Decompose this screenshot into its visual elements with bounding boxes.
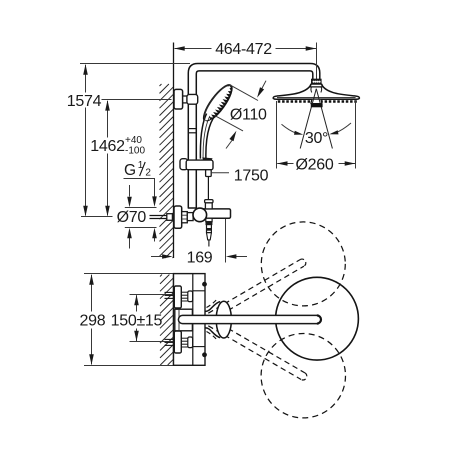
dim 1462 arrow up bbox=[105, 100, 110, 111]
shower outlet block (plan) bbox=[175, 309, 193, 331]
dim Ø260 arrow left bbox=[277, 161, 288, 166]
dim 298 extension top bbox=[84, 273, 205, 275]
shower pipe outline bbox=[188, 64, 319, 209]
dim 1574 line upper segment bbox=[85, 65, 87, 93]
head shower circle (plan) bbox=[276, 277, 359, 360]
head shower nozzle row bbox=[278, 100, 357, 103]
dashed arm lower (swivel) bbox=[208, 326, 301, 380]
thermostat spacer bbox=[187, 213, 193, 221]
dashed circle upper (head swivel position) bbox=[261, 222, 345, 306]
hose end line bbox=[208, 240, 210, 247]
dim Ø260 extension line right bbox=[355, 101, 357, 169]
dashed circle lower (head swivel position) bbox=[261, 334, 345, 418]
dim 464-472 extension line through pipe bbox=[316, 63, 318, 84]
dim 169 line right tail bbox=[230, 256, 248, 258]
dashed arm upper (swivel) bbox=[212, 266, 304, 320]
svg-text:-100: -100 bbox=[125, 145, 145, 156]
svg-text:1750: 1750 bbox=[234, 168, 269, 185]
wall bracket plate bbox=[174, 89, 183, 109]
dim 464-472 line left segment bbox=[175, 48, 212, 50]
hand shower hose nut bbox=[206, 170, 212, 177]
arm bell mouth ellipse bbox=[216, 301, 231, 338]
svg-text:1462: 1462 bbox=[90, 138, 125, 155]
svg-text:G: G bbox=[124, 162, 136, 179]
dim 298 arrow down bbox=[89, 354, 94, 365]
thermostat escutcheon bbox=[174, 206, 182, 228]
head shower spray plate line bbox=[277, 97, 356, 99]
dim 1574 arrow down bbox=[83, 206, 88, 217]
dim Ø70 left arrow line lower bbox=[129, 238, 131, 249]
dim 169 arrow right at wall bbox=[162, 254, 173, 259]
wall hatching (side view) bbox=[160, 84, 174, 258]
dim 150 extension top bbox=[130, 294, 177, 296]
hand shower holder dark wedge bbox=[202, 157, 212, 162]
dim Ø260 arrow right bbox=[345, 161, 356, 166]
angle 30 right arc arrow bbox=[333, 123, 351, 134]
hand shower hose line bbox=[207, 177, 209, 200]
supply stub lines top (plan) bbox=[165, 291, 174, 293]
supply stub lines bottom (plan) bbox=[165, 338, 174, 340]
svg-text:464-472: 464-472 bbox=[215, 41, 272, 58]
thermostat temperature handle bbox=[193, 208, 207, 222]
dim 298 extension bottom bbox=[84, 365, 205, 367]
hand shower spray face hatching bbox=[205, 86, 235, 124]
hose outlet cylinder bbox=[207, 225, 212, 233]
dim 1462 line upper segment bbox=[107, 101, 109, 138]
dim 464-472 line right segment bbox=[276, 48, 317, 50]
dim 298 line upper bbox=[91, 275, 93, 312]
dim Ø70 left arrow up bbox=[127, 228, 132, 239]
thermostat body bbox=[197, 209, 231, 218]
dim Ø70 left arrow line upper bbox=[129, 185, 131, 197]
riser collar at bracket bbox=[187, 94, 198, 104]
spray cone 30 deg left line bbox=[300, 89, 316, 149]
supply escutcheon bottom (plan) bbox=[174, 331, 181, 353]
shower arm tube (plan) bbox=[178, 315, 321, 323]
dim 150 line upper bbox=[136, 295, 138, 311]
dim 1462 arrow down bbox=[105, 206, 110, 217]
dim 169 line left bbox=[151, 256, 169, 258]
angle 30 left arc arrow bbox=[282, 124, 300, 134]
head shower ball sphere arcs bbox=[310, 87, 313, 93]
dim 464-472 arrow left bbox=[174, 46, 185, 51]
arm bell bottom curve bbox=[205, 328, 220, 338]
dim Ø260 line left bbox=[277, 163, 293, 165]
dim 150 arrow up bbox=[134, 295, 139, 306]
dim 464-472 extension line right bbox=[316, 43, 318, 87]
label G 1/2 bbox=[124, 160, 151, 179]
dim Ø110 arrow lower bbox=[226, 139, 233, 149]
G 1/2 underline bbox=[124, 178, 156, 180]
dim 298 arrow up bbox=[89, 274, 94, 285]
supply pipe thread top (plan) bbox=[181, 291, 188, 293]
hose outlet flange bbox=[206, 218, 212, 221]
trim internal line bottom (plan) bbox=[193, 346, 205, 348]
head shower ball joint knurl bbox=[312, 79, 321, 84]
G 1/2 arrow down bbox=[152, 196, 157, 207]
thermostat trim outline (plan) bbox=[174, 274, 206, 366]
supply escutcheon top (plan) bbox=[174, 286, 181, 308]
dashed bell arc upper bbox=[207, 298, 219, 308]
dim Ø260 line right bbox=[339, 163, 356, 165]
supply union nut bottom (plan) bbox=[188, 337, 193, 348]
svg-text:298: 298 bbox=[80, 312, 106, 329]
diverter knob bbox=[205, 202, 212, 209]
svg-text:1574: 1574 bbox=[67, 93, 102, 110]
thermostat union nut bbox=[182, 212, 188, 223]
supply nipple wall fitting bbox=[167, 214, 173, 221]
dim Ø70 extension line bottom bbox=[125, 227, 157, 229]
wall face line (plan view) bbox=[173, 274, 175, 366]
dim 1462 line lower segment bbox=[107, 154, 109, 216]
wall face line (side view) bbox=[173, 43, 175, 259]
dim Ø260 extension line left bbox=[276, 101, 278, 169]
dim bottom tick line (supply centerline) bbox=[81, 216, 113, 218]
spray cone 30 deg right line bbox=[316, 89, 332, 149]
dim 150 extension bottom bbox=[130, 341, 177, 343]
shower arm tube end cap bbox=[317, 315, 321, 323]
head shower center hub bbox=[311, 99, 322, 103]
svg-text:Ø260: Ø260 bbox=[296, 156, 334, 173]
trim internal line top (plan) bbox=[193, 290, 205, 292]
svg-text:2: 2 bbox=[145, 168, 151, 179]
arm bell top curve bbox=[205, 302, 220, 312]
dim Ø110 arrow upper bbox=[260, 81, 267, 93]
head shower outline bbox=[273, 84, 359, 99]
dim 1574 line lower segment bbox=[85, 108, 87, 216]
dim 1574 extension line top bbox=[80, 63, 190, 65]
dim Ø70 right arrow line lower bbox=[154, 238, 156, 242]
head shower ball flare bbox=[310, 84, 322, 87]
dim 1574 arrow up bbox=[83, 64, 88, 75]
dim Ø70 left arrow down bbox=[127, 197, 132, 208]
supply nipple double line bbox=[150, 215, 168, 217]
trim notch top (plan) bbox=[202, 282, 207, 287]
wall hatching (plan view) bbox=[160, 275, 174, 366]
dim Ø70 extension line top bbox=[125, 207, 157, 209]
svg-text:150±15: 150±15 bbox=[111, 312, 163, 329]
dim 1462 extension line (bracket level) bbox=[102, 99, 172, 101]
dim 298 line lower bbox=[91, 329, 93, 365]
hand shower holder knob bbox=[180, 159, 188, 170]
supply pipe thread bottom (plan) bbox=[181, 337, 188, 339]
trim notch bottom (plan) bbox=[202, 352, 207, 357]
wall bracket arm bbox=[182, 96, 190, 103]
hand shower holder bar bbox=[186, 160, 213, 170]
head shower hub dark band bbox=[311, 104, 323, 108]
svg-text:Ø70: Ø70 bbox=[117, 209, 147, 226]
dim 150 arrow down bbox=[134, 331, 139, 342]
supply union nut top (plan) bbox=[188, 291, 193, 302]
dim Ø110 extension line lower bbox=[214, 115, 243, 131]
trim inner vertical line (plan) bbox=[192, 274, 194, 315]
G 1/2 leader line down bbox=[154, 179, 156, 199]
hose outlet cone bbox=[207, 233, 212, 240]
hose outlet nut bbox=[206, 222, 212, 225]
svg-text:169: 169 bbox=[187, 250, 213, 267]
dim 169 extension line (body front) bbox=[225, 219, 227, 263]
hand shower head and handle bbox=[199, 81, 236, 125]
dim 464-472 arrow right bbox=[306, 46, 317, 51]
outlet block inner line (plan) bbox=[178, 309, 180, 331]
svg-text:30°: 30° bbox=[305, 130, 328, 147]
dim Ø110 extension line upper bbox=[230, 85, 258, 101]
dim Ø70 right arrow up bbox=[152, 228, 157, 239]
dim 169 arrow left at body front bbox=[226, 254, 237, 259]
riser joint lines bbox=[188, 128, 196, 130]
dashed bell arc lower bbox=[207, 332, 219, 342]
svg-text:1: 1 bbox=[138, 160, 144, 171]
dim 150 line lower bbox=[136, 329, 138, 342]
svg-text:Ø110: Ø110 bbox=[230, 106, 267, 123]
label 1750 leader bbox=[212, 172, 229, 174]
